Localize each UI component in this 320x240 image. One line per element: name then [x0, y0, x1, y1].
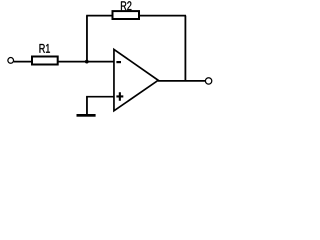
wire: R2 right horizontal [140, 15, 186, 17]
wire: down to ground [86, 97, 88, 115]
output terminal (right) [205, 78, 211, 84]
wire: input terminal to R1 [14, 61, 32, 63]
op-amp U1 triangle [114, 49, 158, 110]
ground [77, 114, 96, 117]
label R2 [121, 1, 131, 10]
resistor R2 [113, 11, 140, 19]
minus sign (inverting input) [116, 61, 121, 63]
wire: R1 to op-amp inverting input [59, 61, 114, 63]
wire: feedback vertical down to output [184, 16, 186, 81]
input terminal (left) [8, 58, 14, 64]
plus sign (non-inverting input) [116, 92, 123, 101]
wire: op-amp output [158, 80, 205, 82]
wire: non-inverting input to ground corner [86, 96, 114, 98]
resistor R1 [32, 57, 58, 65]
wire: to R2 left [86, 15, 112, 17]
label R1 [40, 44, 50, 53]
node A (junction dot) [85, 60, 89, 64]
wire: feedback vertical from node A up to R2 [86, 16, 88, 62]
